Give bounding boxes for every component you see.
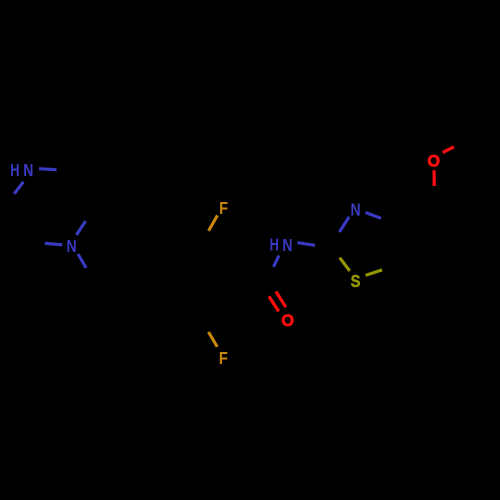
svg-text:S: S [351,272,361,291]
svg-text:H: H [10,161,19,180]
svg-text:N: N [66,237,76,256]
svg-text:N: N [350,201,360,220]
svg-text:F: F [219,349,228,368]
svg-text:O: O [282,312,294,330]
svg-text:N: N [282,237,292,256]
svg-text:N: N [23,162,33,181]
svg-text:O: O [427,152,439,170]
svg-text:F: F [219,199,228,218]
svg-text:H: H [270,236,279,255]
